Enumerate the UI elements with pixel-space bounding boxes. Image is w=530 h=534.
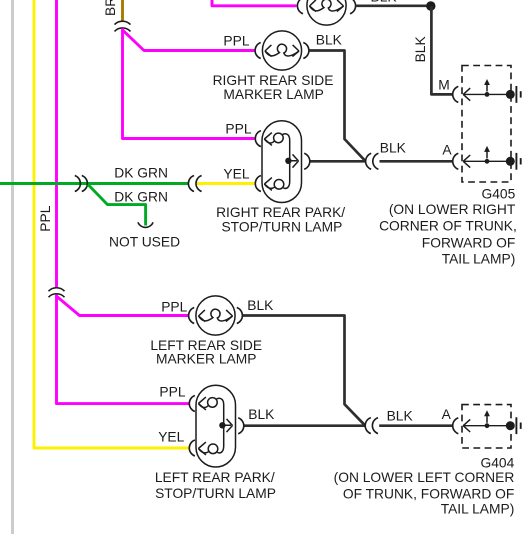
svg-text:RIGHT REAR PARK/: RIGHT REAR PARK/ [216,205,345,220]
ground G405 terminal M row [453,79,521,103]
wire BLK from top lamp to junction [356,4,428,7]
svg-text:DK GRN: DK GRN [114,190,168,205]
label G405 location [379,186,517,266]
wire BLK down to G405 M [431,6,452,94]
svg-text:A: A [442,407,452,422]
connector in-line splice left BLK pair [365,418,378,434]
svg-text:(ON LOWER RIGHT: (ON LOWER RIGHT [389,202,516,217]
svg-text:PPL: PPL [161,300,187,315]
connector in-line BRN to PPL [115,21,131,31]
svg-text:NOT USED: NOT USED [109,234,180,249]
svg-text:OF TRUNK, FORWARD OF: OF TRUNK, FORWARD OF [343,486,514,501]
ground block G405 dashed box [462,66,511,183]
ground G405 terminal A row [453,146,521,170]
connector in-line DK GRN to YEL [188,176,201,192]
wire BLK to G404 A [379,424,452,427]
svg-text:TAIL LAMP): TAIL LAMP) [442,251,516,266]
wire magenta top-left stub to top lamp [212,0,296,6]
junction splice dot [426,1,435,10]
node center of left park lamp [219,422,225,428]
svg-text:BLK: BLK [413,36,428,63]
svg-text:G405: G405 [482,186,516,201]
svg-text:MARKER LAMP: MARKER LAMP [156,352,256,367]
lamp: right rear side marker lamp [255,31,309,70]
connector in-line on magenta rail [49,288,65,297]
wire magenta branch to left marker lamp PPL [57,296,188,315]
terminator not-used arc [138,222,153,227]
ground block G404 dashed box [462,405,511,448]
svg-text:BLK: BLK [248,407,275,422]
svg-text:G404: G404 [481,455,515,470]
svg-text:TAIL LAMP): TAIL LAMP) [441,502,515,517]
svg-text:STOP/TURN LAMP: STOP/TURN LAMP [155,486,276,501]
svg-text:DK GRN: DK GRN [114,166,168,181]
ground G404 terminal A row [453,410,521,434]
lamp: left rear side marker lamp [189,296,243,335]
node center of right park lamp [285,158,291,164]
wire DK GRN main [0,182,189,185]
wire magenta branch to right marker lamp PPL [123,30,255,50]
lamp: left rear park/stop/turn lamp [189,385,244,467]
wire BLK left park to junction [245,424,365,427]
svg-text:(ON LOWER LEFT CORNER: (ON LOWER LEFT CORNER [334,470,515,485]
svg-text:M: M [438,78,450,93]
svg-text:STOP/TURN LAMP: STOP/TURN LAMP [221,219,342,234]
wire magenta from BRN connector to right park lamp PPL [123,28,255,138]
svg-text:RIGHT REAR SIDE: RIGHT REAR SIDE [213,73,334,88]
svg-text:BLK: BLK [380,141,407,156]
svg-text:PPL: PPL [225,122,251,137]
svg-text:BLK: BLK [316,33,343,48]
svg-text:FORWARD OF: FORWARD OF [422,236,516,251]
wire BLK to G405 A [380,160,453,163]
wire yellow rail to left lamp YEL [34,0,189,448]
lamp: right rear park/stop/turn lamp [255,121,310,203]
wire BLK right park to junction [311,160,366,163]
svg-text:MARKER LAMP: MARKER LAMP [223,87,323,102]
svg-text:A: A [442,143,452,158]
svg-text:BLK: BLK [371,0,398,5]
label G404 location [334,455,515,516]
svg-text:BLK: BLK [247,298,274,313]
svg-text:CORNER OF TRUNK,: CORNER OF TRUNK, [379,219,517,234]
svg-text:PPL: PPL [223,33,249,48]
svg-text:YEL: YEL [223,167,249,182]
svg-text:YEL: YEL [158,429,184,444]
wire BLK left marker to junction [243,316,365,426]
svg-text:LEFT REAR PARK/: LEFT REAR PARK/ [155,470,275,485]
wire DK GRN branch to not used [88,185,146,226]
svg-text:BRN: BRN [103,0,118,16]
connector in-line on DK GRN [75,176,88,192]
wire magenta rail top segment [55,0,58,288]
svg-text:BLK: BLK [387,408,414,423]
lamp: top rear lamp (cut off at top edge) [297,0,355,25]
wire gray vertical rail [11,0,14,534]
svg-text:PPL: PPL [159,385,185,400]
svg-text:PPL: PPL [38,205,53,231]
wire BRN feed at top [121,0,124,21]
wire BLK right marker to junction [310,51,366,161]
wire magenta rail lower to left park lamp PPL [57,294,189,403]
connector in-line splice right BLK pair [366,153,379,169]
wire YEL to right park lamp [197,182,254,185]
